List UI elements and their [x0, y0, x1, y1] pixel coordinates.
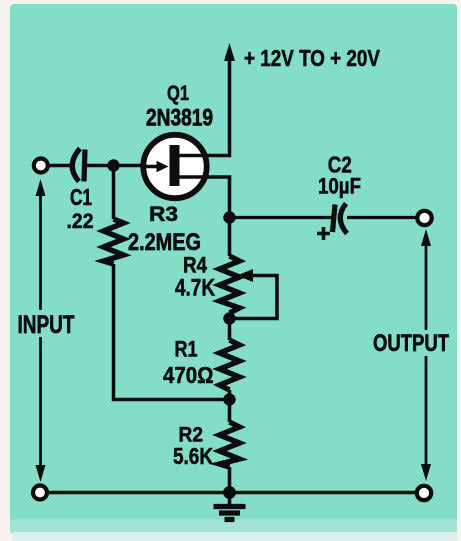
output terminal (top right): [417, 211, 431, 225]
svg-text:R3: R3: [149, 203, 178, 226]
+12V supply arrow: [224, 43, 235, 61]
svg-text:10µF: 10µF: [318, 174, 361, 199]
wire: R3 bottom to R1/R2 junction: [114, 264, 230, 400]
bottom right terminal: [417, 486, 431, 500]
wire: R3 top lead (gate node to R3): [112, 166, 116, 220]
input span arrow: [36, 179, 46, 482]
wire: Q1 source to output node: [205, 177, 230, 218]
output span arrow: [421, 229, 431, 481]
input terminal (top left): [34, 159, 48, 173]
svg-text:4.7K: 4.7K: [175, 275, 216, 302]
node: ground junction dot: [223, 486, 236, 499]
wire: C1 to Q1 gate: [114, 164, 143, 168]
svg-text:+ 12V TO + 20V: + 12V TO + 20V: [244, 45, 381, 71]
svg-text:Q1: Q1: [167, 82, 189, 105]
bottom ground rail wire: [47, 491, 418, 494]
svg-text:.22: .22: [67, 210, 94, 233]
ground: [214, 493, 246, 520]
wire: R4 to R1: [228, 313, 232, 340]
resistor R3: [104, 219, 124, 264]
capacitor C2: [333, 204, 348, 234]
node: gate junction dot: [107, 159, 119, 171]
capacitor C1: [72, 149, 113, 182]
resistor R4 (trimmer): [220, 256, 240, 313]
wire: output node to R4: [228, 218, 232, 257]
wire: C2 to output terminal: [347, 216, 417, 219]
node: source/output junction dot: [223, 211, 235, 223]
bottom left terminal: [33, 486, 47, 500]
node: R1/R2 junction dot: [223, 393, 235, 405]
resistor R2: [220, 422, 240, 467]
resistor R1: [220, 340, 240, 390]
wire: input terminal to C1: [48, 164, 70, 168]
R4 wiper arrow and link: [235, 269, 277, 319]
svg-text:INPUT: INPUT: [18, 311, 75, 339]
wire: R1 to R2: [228, 390, 232, 422]
svg-text:C1: C1: [70, 184, 92, 210]
C2 polarity +: [317, 227, 330, 240]
svg-text:5.6K: 5.6K: [173, 443, 213, 469]
svg-text:R1: R1: [175, 337, 198, 362]
wire: R2 to ground rail: [228, 467, 232, 493]
svg-text:470Ω: 470Ω: [163, 362, 214, 388]
supply rail wire: [204, 60, 230, 156]
node: R4 bottom junction dot: [223, 312, 235, 324]
transistor Q1: [141, 135, 207, 198]
svg-text:OUTPUT: OUTPUT: [373, 330, 449, 357]
svg-text:2N3819: 2N3819: [146, 105, 213, 132]
wire: output node to C2: [230, 216, 333, 219]
